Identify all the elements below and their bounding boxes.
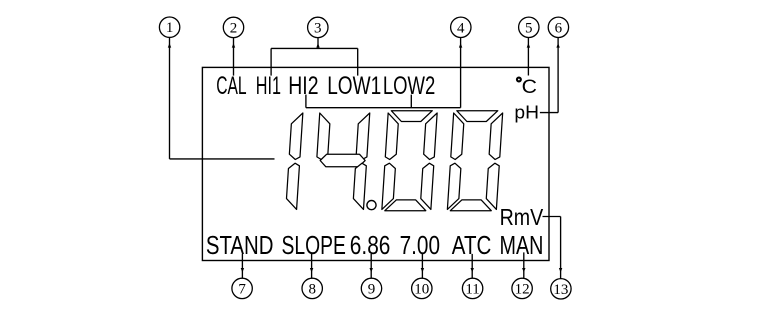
svg-text:8: 8 [308,281,316,297]
svg-text:12: 12 [515,281,530,297]
svg-text:HI1: HI1 [256,72,281,100]
svg-text:SLOPE: SLOPE [282,232,346,260]
svg-text:STAND: STAND [206,232,274,260]
svg-text:7.00: 7.00 [400,232,440,260]
svg-text:5: 5 [525,20,533,36]
svg-text:C: C [522,76,537,98]
svg-text:ATC: ATC [452,232,492,260]
svg-text:6.86: 6.86 [350,232,391,260]
svg-text:11: 11 [465,281,479,297]
svg-text:10: 10 [414,281,429,297]
svg-text:7: 7 [238,281,246,297]
svg-text:2: 2 [230,20,238,36]
svg-text:3: 3 [314,20,322,36]
svg-text:6: 6 [555,20,563,36]
svg-text:LOW2: LOW2 [383,72,435,100]
svg-text:LOW1: LOW1 [327,72,381,100]
svg-text:9: 9 [368,281,376,297]
svg-text:CAL: CAL [216,72,246,100]
svg-text:pH: pH [514,103,539,123]
svg-text:13: 13 [553,282,568,298]
svg-text:HI2: HI2 [288,72,318,100]
svg-text:1: 1 [166,20,174,36]
svg-text:4: 4 [457,20,465,36]
svg-text:RmV: RmV [500,204,544,230]
svg-text:MAN: MAN [500,232,544,260]
